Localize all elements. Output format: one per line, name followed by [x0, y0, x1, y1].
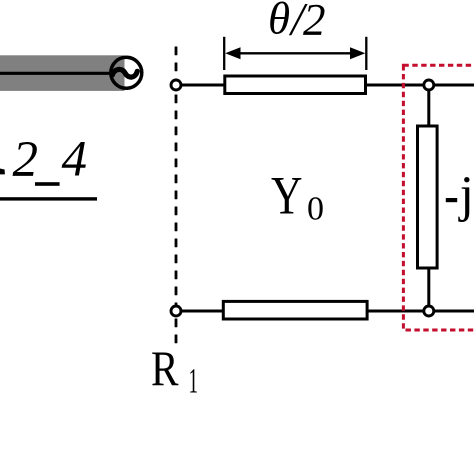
svg-text:4: 4	[62, 132, 88, 188]
fraction bar under label	[0, 197, 97, 200]
transmission line section top (theta/2)	[225, 76, 366, 94]
dimension tick left	[223, 37, 225, 70]
label L2_4 partial first glyph	[0, 169, 5, 175]
svg-text:1: 1	[189, 361, 199, 401]
dimension arrowhead left	[225, 47, 240, 59]
red dashed boundary box	[403, 65, 474, 330]
node top-left	[171, 80, 181, 90]
svg-text:2: 2	[303, 0, 326, 45]
label -jB minus sign	[446, 198, 457, 202]
svg-text:j: j	[458, 167, 474, 223]
svg-text:2: 2	[13, 132, 39, 188]
shunt susceptance stub -jB	[418, 126, 438, 268]
node top-right	[424, 80, 434, 90]
svg-text:R: R	[151, 340, 179, 396]
dimension arrowhead right	[350, 47, 365, 59]
source V1 circle	[111, 57, 142, 88]
svg-text:Y: Y	[271, 166, 303, 226]
label underscore	[35, 182, 60, 186]
feed line center conductor wire	[0, 72, 112, 75]
node bottom-right	[424, 306, 434, 316]
source V1 sine symbol	[112, 69, 137, 77]
transmission line section bottom (theta/2)	[223, 301, 367, 319]
wire top right	[366, 84, 474, 87]
svg-text:θ: θ	[268, 0, 290, 44]
node bottom-left	[171, 306, 181, 316]
reference plane dashed line	[175, 47, 178, 347]
wire stub bottom	[427, 268, 430, 311]
wire stub top	[427, 85, 430, 128]
dimension arrow line	[235, 52, 355, 54]
coaxial feed line (gray bar)	[0, 55, 125, 91]
wire bottom left	[176, 310, 224, 313]
wire bottom right	[367, 310, 474, 313]
wire top left	[176, 84, 224, 87]
svg-text:0: 0	[307, 191, 324, 228]
dimension tick right	[365, 37, 367, 70]
